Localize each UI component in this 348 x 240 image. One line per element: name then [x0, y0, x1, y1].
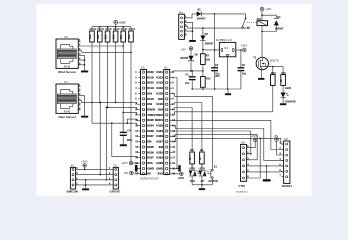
resistor R2	[97, 27, 105, 103]
svg-text:GND: GND	[156, 166, 164, 170]
wire +3V3 bus	[92, 26, 131, 28]
resistor R1	[89, 27, 97, 124]
wire node down to R7	[202, 50, 204, 54]
wire D1 drop to IC1 in	[214, 14, 216, 50]
svg-text:R12: R12	[206, 77, 211, 80]
node bus-R3	[107, 26, 109, 28]
svg-text:IO9: IO9	[158, 107, 163, 111]
svg-text:K4: K4	[179, 11, 183, 15]
svg-text:K8: K8	[241, 141, 245, 145]
relay contact S	[242, 14, 257, 29]
resistor R4	[113, 27, 121, 103]
wire K6 pin3 to R6	[81, 51, 132, 53]
svg-text:+3V3: +3V3	[118, 21, 125, 25]
wire K1 p5 to button S1	[172, 94, 212, 170]
svg-text:IO32: IO32	[156, 150, 163, 154]
svg-text:IO5: IO5	[147, 91, 152, 95]
supply +3V3 FTDI	[247, 134, 258, 148]
node C6 rail	[191, 70, 193, 72]
svg-text:RXD0: RXD0	[155, 118, 163, 122]
svg-text:IO19: IO19	[156, 81, 163, 85]
svg-text:IO26: IO26	[147, 150, 154, 154]
svg-text:25V: 25V	[215, 75, 220, 78]
svg-text:RJ45: RJ45	[64, 64, 71, 68]
wire I2C SDA drop to Grove row2	[99, 102, 101, 174]
svg-text:GROVE: GROVE	[110, 190, 121, 194]
svg-text:FTDI: FTDI	[239, 184, 246, 188]
node gate	[272, 66, 274, 68]
svg-text:IO22: IO22	[147, 70, 154, 74]
node C3 tap	[240, 49, 242, 51]
svg-text:IO23: IO23	[147, 81, 154, 85]
svg-text:Re1: Re1	[257, 18, 262, 21]
relay Re1 coil	[257, 15, 268, 31]
svg-text:ESP32-PICO-KIT: ESP32-PICO-KIT	[141, 179, 160, 181]
svg-text:Rain Sensor: Rain Sensor	[59, 115, 77, 119]
svg-text:TXD0: TXD0	[155, 113, 163, 117]
svg-text:BME280: BME280	[67, 190, 79, 194]
resistor R9	[199, 149, 204, 169]
wire K7 pin3 to ground	[81, 96, 85, 116]
svg-text:IO18: IO18	[156, 91, 163, 95]
svg-text:RXD0: RXD0	[147, 107, 155, 111]
svg-text:+3V3: +3V3	[241, 43, 248, 47]
svg-text:10k: 10k	[128, 34, 131, 39]
svg-text:LED3: LED3	[199, 167, 206, 170]
svg-text:IO34: IO34	[147, 124, 154, 128]
node row D	[127, 122, 129, 124]
svg-text:STA: STA	[190, 180, 195, 183]
node K6p3-R6	[130, 52, 132, 54]
wire K6 pins4,5,6 to ground	[81, 55, 85, 70]
svg-text:10u: 10u	[242, 72, 247, 75]
ground under K4	[189, 40, 196, 42]
resistor R12	[201, 71, 211, 90]
wire I2C SCL drop to Grove row3	[105, 107, 107, 179]
diode D5 BAT85	[181, 50, 199, 71]
wire IC1 out to +3V3	[236, 49, 243, 51]
ground drop BME rows	[85, 180, 87, 189]
wire K4 p1 up to D1	[186, 14, 196, 18]
ground symbol bottom right	[263, 179, 271, 181]
svg-text:K1: K1	[164, 66, 168, 70]
supply +3V3 regulator output	[241, 43, 248, 52]
capacitor C1	[185, 71, 196, 89]
node K6p2-R5	[122, 45, 124, 47]
wire R3 to K2 p8	[108, 107, 139, 109]
diode D1 1N4007	[197, 9, 206, 21]
wire R5 to K2 p9	[123, 112, 138, 115]
svg-text:GND: GND	[147, 166, 155, 170]
wire K1 p7 to R9	[172, 103, 202, 153]
svg-text:RJ45: RJ45	[64, 109, 71, 113]
node BAT85 rail	[190, 70, 192, 72]
svg-text:IO35: IO35	[147, 118, 154, 122]
node R5-row	[122, 112, 124, 114]
wire R1 row to K2 p11	[92, 123, 138, 125]
pushbutton S1 AP-BTN	[208, 165, 218, 184]
node coil bottom	[261, 31, 263, 33]
node K6p5	[84, 59, 86, 61]
svg-text:AP-BTN: AP-BTN	[208, 180, 218, 183]
node D1 out	[214, 13, 216, 15]
svg-text:BAT85: BAT85	[181, 57, 189, 60]
node bus-R2	[99, 26, 101, 28]
svg-text:10k: 10k	[97, 34, 100, 39]
svg-text:R-78B3.3-1.0: R-78B3.3-1.0	[216, 38, 232, 42]
wire K1 p14 to FTDI p6 and BOB p1	[172, 138, 284, 178]
ground under C4	[120, 144, 127, 146]
svg-text:TXD0: TXD0	[147, 113, 155, 117]
supply +3V3 at K2 p18	[121, 161, 138, 165]
ground under LED1	[280, 103, 286, 105]
supply +3V3 over BME	[81, 159, 88, 169]
node grove row1	[84, 169, 86, 171]
connector K9 BOB01	[279, 137, 292, 188]
supply +5V at K2 p20	[123, 171, 138, 175]
supply +5V BOB	[273, 134, 281, 155]
svg-text:10k: 10k	[113, 34, 116, 39]
svg-text:180468-013: 180468-013	[236, 192, 248, 194]
svg-text:+3V3: +3V3	[121, 161, 128, 165]
connector K5 GROVE	[109, 164, 120, 194]
wire K7 pin4 to K2 p7	[81, 100, 139, 104]
resistor R11	[280, 72, 287, 86]
svg-text:IO10: IO10	[156, 102, 163, 106]
wire K1 p2 to ground at p19	[172, 78, 177, 169]
LED3 AP (duo-LED)	[199, 164, 210, 185]
header K2 (ESP32-PICO-KIT left)	[141, 66, 147, 175]
svg-text:+12V: +12V	[265, 7, 272, 11]
svg-text:10k: 10k	[105, 34, 108, 39]
node bus-R4	[115, 26, 117, 28]
wire D1 to relay lever	[202, 13, 246, 15]
diode D4 1N4007 flyback	[262, 15, 284, 31]
svg-text:IO35: IO35	[156, 124, 163, 128]
svg-text:IO27: IO27	[147, 156, 154, 160]
svg-text:CHARGE: CHARGE	[285, 101, 296, 104]
svg-text:+3V3: +3V3	[178, 177, 185, 180]
wire K4 p2 down to p4	[186, 22, 192, 31]
wire node to IC1	[203, 49, 220, 51]
resistor R3	[105, 27, 113, 108]
svg-text:LED2: LED2	[189, 167, 196, 170]
svg-text:IO38: IO38	[156, 134, 163, 138]
svg-text:3V3: 3V3	[147, 161, 153, 165]
svg-text:AP: AP	[201, 180, 205, 183]
wire K1 p8 to R8	[172, 108, 192, 153]
svg-text:IO21: IO21	[156, 70, 163, 74]
node IC1 input	[202, 49, 204, 51]
svg-text:K6: K6	[65, 35, 69, 39]
svg-text:Wind Sensor: Wind Sensor	[58, 70, 77, 74]
svg-text:IO34: IO34	[156, 129, 163, 133]
connector K8 FTDI	[239, 141, 250, 189]
svg-text:IO23: IO23	[156, 86, 163, 90]
ground rail LEDs	[192, 184, 212, 186]
svg-text:R11: R11	[282, 72, 287, 75]
supply +3V3 top	[114, 20, 126, 27]
svg-text:R10: R10	[271, 72, 276, 75]
connector K4 power input	[179, 11, 187, 40]
svg-text:IO10: IO10	[147, 97, 154, 101]
svg-text:IO9: IO9	[147, 102, 152, 106]
resistor R6	[128, 27, 136, 162]
node D2 tap	[202, 27, 204, 29]
ground under T1	[258, 78, 264, 80]
svg-text:1N4007: 1N4007	[275, 27, 284, 30]
svg-text:K5: K5	[114, 164, 118, 168]
svg-text:+5V: +5V	[273, 134, 278, 138]
wire K1 p9 to T1 gate / R10	[172, 112, 273, 115]
svg-text:IO37: IO37	[156, 140, 163, 144]
header K2/K1 pin circles, stubs, numbers and IO labels	[135, 70, 175, 176]
capacitor C4 100n	[120, 113, 133, 145]
svg-text:K9: K9	[284, 137, 288, 141]
node FTDI p2	[250, 153, 252, 155]
wire K1 p12 to FTDI p2	[172, 131, 251, 154]
ground symbol IC1	[225, 93, 231, 95]
wire K1 p11 to BOB p4	[172, 126, 284, 161]
wire FTDI gnd row	[249, 165, 284, 167]
svg-text:+3V3: +3V3	[251, 134, 258, 138]
ground under K7	[81, 116, 88, 118]
resistor R5	[120, 27, 128, 132]
svg-text:IO5: IO5	[158, 97, 163, 101]
node +12V	[261, 14, 263, 16]
svg-text:IO38: IO38	[147, 129, 154, 133]
node R2 end	[99, 102, 101, 104]
wire K4 p3 to relay contact	[186, 27, 248, 28]
canvas	[37, 5, 312, 196]
LED1 CHARGE	[281, 85, 296, 103]
svg-text:BS170: BS170	[270, 59, 279, 63]
regulator IC1 R-78B3.3-1.0	[216, 38, 236, 57]
diode D2 1N4007	[200, 28, 214, 49]
wire K1 p13 to FTDI p3	[172, 135, 257, 160]
node K4 p4	[192, 30, 194, 32]
node SDA drop	[99, 102, 101, 104]
svg-text:3V3: 3V3	[158, 172, 164, 176]
svg-text:+3V3: +3V3	[81, 159, 88, 163]
svg-text:IO37: IO37	[147, 134, 154, 138]
node R1 cross	[91, 102, 93, 104]
svg-text:+5V: +5V	[181, 48, 186, 52]
svg-text:K3: K3	[71, 164, 75, 168]
node R3 end	[107, 107, 109, 109]
ground symbol LEDs	[199, 188, 205, 190]
svg-text:10k: 10k	[120, 34, 123, 39]
resistor R7	[201, 54, 211, 71]
svg-text:K2: K2	[141, 66, 145, 70]
header K1 (ESP32-PICO-KIT right)	[164, 66, 170, 175]
capacitor C3	[238, 50, 247, 89]
svg-text:IO36: IO36	[147, 145, 154, 149]
svg-text:IC1: IC1	[224, 46, 229, 50]
ground bar at K2 p19	[135, 165, 138, 172]
svg-text:10u: 10u	[185, 82, 190, 85]
node bus-R5	[122, 26, 124, 28]
svg-text:IO19: IO19	[147, 75, 154, 79]
wire +5V rail to K1 p1	[172, 71, 203, 72]
wire K1 p10 to BOB p2	[172, 120, 284, 149]
svg-text:K7: K7	[65, 80, 69, 84]
svg-text:1N4007: 1N4007	[205, 42, 214, 45]
wire FTDI p5 to BOB p6	[249, 170, 284, 173]
resistor R10	[271, 72, 277, 112]
svg-text:5V: 5V	[147, 172, 151, 176]
wires BME280-GROVE rows	[78, 169, 111, 185]
resistor R8	[189, 149, 194, 169]
svg-text:BOB01: BOB01	[282, 184, 292, 188]
ground rail under IC1	[192, 88, 241, 90]
connector K3 BME280	[67, 164, 79, 194]
wire drop to K2 p17	[112, 123, 139, 158]
svg-text:10k: 10k	[206, 59, 211, 62]
svg-text:IO22: IO22	[156, 75, 163, 79]
connector K7 RJ45 Rain Sensor	[56, 80, 81, 119]
node p14 branch	[259, 138, 261, 140]
svg-text:IO25: IO25	[156, 161, 163, 165]
ground bar at K1 p19	[178, 165, 180, 171]
svg-text:IO33: IO33	[156, 156, 163, 160]
node R7 rail	[202, 70, 204, 72]
supply +12V	[260, 7, 271, 15]
svg-text:IO18: IO18	[147, 86, 154, 90]
svg-text:+5V: +5V	[123, 171, 128, 175]
LED2 STA (duo-LED)	[189, 164, 200, 185]
svg-text:EN: EN	[159, 145, 163, 149]
svg-text:1N4007: 1N4007	[197, 17, 206, 20]
svg-text:100n: 100n	[127, 139, 133, 142]
svg-text:10k: 10k	[89, 34, 92, 39]
svg-text:LED1: LED1	[285, 87, 292, 90]
transistor T1 BS170	[253, 32, 279, 77]
wire K4 p4 to ground	[186, 31, 192, 40]
ground under K6	[81, 71, 88, 73]
connector K6 RJ45 Wind Sensor	[56, 35, 81, 74]
node K6p6	[84, 64, 86, 66]
supply +3V3 at K1 p20	[172, 172, 184, 180]
node R4 end	[115, 102, 117, 104]
wire K6 pin2 to R5	[81, 45, 124, 47]
capacitor C2	[211, 50, 220, 89]
supply +5V backup	[181, 47, 193, 52]
svg-text:EN: EN	[147, 140, 151, 144]
wire row to K2 p10	[127, 119, 138, 123]
node SCL drop	[106, 107, 108, 109]
